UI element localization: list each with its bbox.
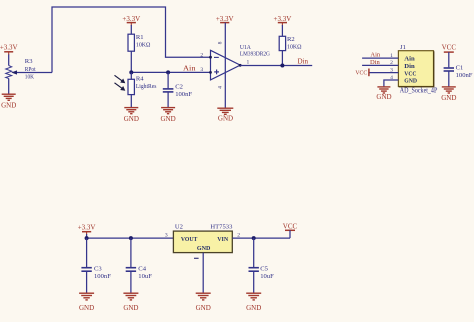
wire +3.3V to R1 (130, 25, 132, 34)
svg-text:VCC: VCC (283, 222, 298, 230)
pin dot 2 (209, 56, 212, 59)
junction C3 (85, 236, 89, 240)
wire rail left (87, 237, 174, 239)
wire C5 drop (253, 238, 255, 267)
op-amp power/ground line (224, 23, 226, 109)
resistor R2 (279, 36, 285, 50)
svg-text:C5: C5 (260, 265, 268, 272)
power +3.3V (R2) (274, 15, 292, 26)
op-amp minus input mark (214, 56, 219, 58)
wire C1 to ground (448, 71, 450, 87)
svg-text:GND: GND (376, 93, 391, 101)
svg-text:2: 2 (390, 60, 393, 66)
svg-text:GND: GND (218, 115, 233, 123)
svg-text:10KΩ: 10KΩ (287, 43, 302, 50)
svg-text:LM393DR2G: LM393DR2G (240, 51, 270, 58)
svg-text:R2: R2 (287, 36, 295, 43)
wire pot wiper to pin2 detour (52, 7, 211, 73)
junction C4 (129, 236, 133, 240)
svg-text:RPot: RPot (25, 66, 36, 73)
potentiometer R3 zigzag (6, 66, 12, 79)
capacitor C3 (81, 268, 91, 272)
pin dot out (239, 64, 242, 67)
ground (U2) (196, 293, 211, 300)
junction R1/R4 (129, 70, 133, 74)
svg-text:VIN: VIN (217, 236, 228, 243)
svg-text:VCC: VCC (355, 70, 367, 77)
wire U2 GND pin (202, 253, 204, 293)
svg-text:GND: GND (123, 304, 138, 312)
svg-text:R4: R4 (136, 75, 144, 82)
wire pot top (8, 55, 10, 66)
pin numbers J1 (390, 53, 393, 81)
svg-text:R3: R3 (25, 58, 33, 65)
op-amp plus input mark (214, 70, 219, 75)
svg-text:VCC: VCC (442, 44, 457, 52)
svg-text:3: 3 (390, 67, 393, 73)
svg-text:GND: GND (197, 245, 211, 252)
photoresistor R4 (128, 79, 134, 94)
power +3.3V (R1) (122, 15, 140, 26)
power +3.3V (op-amp) (216, 15, 234, 23)
svg-text:100nF: 100nF (175, 91, 192, 98)
svg-text:GND: GND (196, 304, 211, 312)
capacitor C5 (249, 268, 259, 272)
svg-text:+3.3V: +3.3V (216, 15, 234, 23)
svg-text:C1: C1 (456, 65, 464, 72)
svg-text:+3.3V: +3.3V (122, 15, 140, 23)
svg-text:2: 2 (200, 52, 203, 58)
svg-text:GND: GND (246, 304, 261, 312)
svg-text:GND: GND (1, 101, 16, 109)
wire output to R2 node (240, 65, 312, 67)
wire R1 to node Ain (130, 51, 132, 72)
svg-text:GND: GND (124, 115, 139, 123)
wire J1 pin2 (362, 64, 398, 66)
wire Ain to R4 (130, 72, 132, 79)
wire +3.3V to R2 (281, 25, 283, 36)
op-amp U1A (211, 50, 241, 80)
svg-text:Ain: Ain (370, 52, 381, 59)
power VCC (right) (283, 222, 298, 230)
svg-text:1: 1 (247, 59, 250, 65)
svg-text:GND: GND (404, 78, 417, 85)
svg-text:VOUT: VOUT (181, 236, 198, 243)
connector J1 body (398, 51, 433, 87)
svg-text:LightRes: LightRes (136, 83, 157, 90)
wire C3 drop (86, 238, 88, 267)
wire R4 to ground (130, 95, 132, 108)
power VCC (C1) (442, 44, 457, 52)
power +3.3V (pot) (0, 43, 18, 55)
pin dot 3 (209, 71, 212, 74)
ground (C3) (79, 293, 94, 300)
power VCC (J1 pin3) (355, 69, 369, 77)
wire C2 to ground (167, 92, 169, 108)
capacitor C4 (126, 268, 136, 272)
svg-text:AD_Socket_4P: AD_Socket_4P (400, 88, 438, 95)
svg-text:+3.3V: +3.3V (78, 224, 96, 232)
svg-text:4: 4 (218, 86, 224, 89)
regulator U2 body (173, 231, 232, 253)
wire pot bottom (8, 79, 10, 95)
wire rail right (232, 237, 290, 239)
wire C5 to ground (253, 271, 255, 293)
wire +3.3V to rail (86, 234, 88, 238)
wire node Ain rail (131, 71, 210, 73)
power +3.3V (regulator rail) (78, 224, 96, 235)
wire VCC drop (289, 230, 291, 238)
svg-text:GND: GND (441, 94, 456, 102)
svg-text:GND: GND (161, 115, 176, 123)
potentiometer R3 wiper arrow (11, 70, 52, 74)
svg-text:4: 4 (390, 75, 393, 81)
svg-text:VCC: VCC (404, 70, 416, 77)
svg-text:Din: Din (370, 59, 381, 66)
svg-text:1: 1 (390, 53, 393, 59)
wire VCC to C1 (448, 52, 450, 67)
svg-text:100nF: 100nF (94, 273, 111, 280)
resistor R1 (128, 34, 134, 51)
svg-text:3: 3 (165, 232, 168, 238)
wire Ain to C2 (167, 72, 169, 88)
wire R2 to output (281, 51, 283, 66)
svg-text:Ain: Ain (404, 56, 415, 63)
wire C4 drop (130, 238, 132, 267)
svg-text:C4: C4 (138, 265, 146, 272)
svg-text:GND: GND (79, 304, 94, 312)
svg-text:Ain: Ain (183, 64, 196, 72)
wire J1 pin3 (369, 72, 398, 74)
junction R2/output (280, 64, 284, 68)
svg-text:Din: Din (298, 58, 309, 66)
svg-text:10KΩ: 10KΩ (136, 42, 151, 49)
R4 light arrow 2 (115, 83, 126, 91)
junction C2 (166, 70, 170, 74)
ground (op-amp) (217, 108, 233, 114)
R4 light arrow 1 (115, 75, 126, 83)
wire C3 to ground (86, 271, 88, 293)
svg-text:8: 8 (218, 41, 224, 44)
pin 1 label (U2 GND) (194, 257, 199, 259)
svg-text:100nF: 100nF (456, 72, 473, 79)
svg-text:R1: R1 (136, 34, 144, 41)
ground (C4) (123, 293, 138, 300)
svg-text:+3.3V: +3.3V (274, 15, 292, 23)
ground (C1) (442, 87, 456, 93)
ground (C5) (246, 293, 261, 300)
wire C4 to ground (130, 271, 132, 293)
svg-text:C2: C2 (175, 84, 183, 91)
svg-text:10uF: 10uF (260, 273, 274, 280)
wire J1 pin4 (384, 80, 399, 87)
svg-text:Din: Din (404, 63, 415, 70)
svg-text:U2: U2 (175, 223, 183, 230)
svg-text:2: 2 (237, 232, 240, 238)
capacitor C2 (163, 89, 174, 92)
svg-text:+3.3V: +3.3V (0, 43, 18, 51)
ground (pot) (2, 94, 16, 100)
svg-text:C3: C3 (94, 265, 102, 272)
svg-text:HT7533: HT7533 (210, 223, 233, 230)
wire J1 pin1 (362, 57, 398, 59)
capacitor C1 (444, 68, 454, 71)
junction C5 (252, 236, 256, 240)
ground (J1) (377, 87, 390, 93)
ground (C2) (161, 108, 175, 114)
svg-text:3: 3 (200, 67, 203, 73)
ground (R4) (124, 108, 138, 114)
svg-text:10K: 10K (25, 73, 34, 80)
svg-text:10uF: 10uF (138, 273, 152, 280)
